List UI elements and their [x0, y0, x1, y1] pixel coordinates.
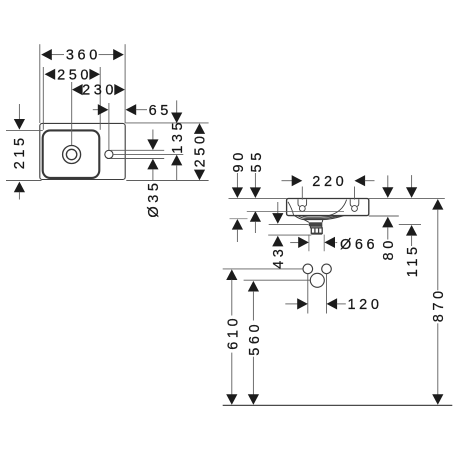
dimension 610 lower stem: [231, 353, 233, 395]
svg-text:220: 220: [312, 174, 347, 190]
dimension 215 upper stem: [18, 104, 20, 119]
svg-text:360: 360: [66, 48, 101, 64]
dimension 360 line: [51, 54, 64, 56]
supply centre line upper (610): [223, 268, 303, 270]
dimension Ø66 left tail: [290, 242, 298, 244]
svg-text:250: 250: [57, 67, 92, 83]
dimension 560 lower arrow: [248, 394, 259, 405]
dimension 115 upper stem: [411, 175, 413, 187]
front view: drain thread box: [311, 228, 322, 233]
dimension 65 right arrow: [126, 104, 137, 115]
dimension 215 lower arrow: [14, 182, 25, 193]
front view: bowl underside middle curve: [298, 216, 340, 219]
dimension Ø35 lower stem: [152, 169, 154, 180]
dimension 120 left tail: [285, 303, 297, 305]
dimension 560 lower stem: [252, 357, 254, 395]
extension line drain bottom (43): [268, 234, 311, 236]
svg-text:135: 135: [170, 119, 186, 154]
dimension 220 line left tail: [282, 180, 293, 182]
dimension 120 right tail: [337, 303, 346, 305]
dimension 55 lower arrow: [250, 211, 261, 222]
extension line bowl lowest point (43/115): [269, 223, 309, 225]
extension line bowl left (250): [42, 67, 44, 130]
waste pipe circle: [310, 273, 324, 287]
dimension 65 left tail: [93, 109, 99, 111]
svg-text:65: 65: [149, 103, 172, 119]
extension line bowl outer bottom left (90): [230, 218, 248, 220]
front view: right keyhole slot: [350, 199, 359, 206]
floor line: [223, 404, 453, 406]
extension line left edge (360): [39, 44, 41, 123]
front view: rim extension line right: [369, 197, 445, 199]
front view: drain flange: [309, 222, 323, 226]
front view: basin slab outline: [287, 199, 369, 216]
dimension 560 upper arrow: [248, 281, 259, 292]
extension line drain centre (230): [71, 82, 73, 145]
dimension 220 left extension line: [301, 187, 303, 200]
front view: trap cup sides: [309, 235, 324, 252]
svg-text:55: 55: [249, 149, 265, 172]
svg-text:560: 560: [247, 321, 263, 356]
svg-text:250: 250: [193, 132, 209, 167]
dimension 610 upper arrow: [226, 269, 237, 280]
dimension 120 right arrow: [327, 298, 338, 309]
dimension 250 top left arrow: [45, 69, 56, 80]
front view: bowl underside outer curve: [295, 216, 344, 220]
top view: tap hole centre line: [113, 153, 183, 155]
extension line right edge (360/230/65): [124, 44, 126, 123]
dimension Ø35 upper stem: [152, 130, 154, 141]
dimension 120 right extension line: [326, 274, 328, 314]
dimension 90 upper arrow: [232, 187, 243, 198]
dimension 55 upper arrow: [250, 187, 261, 198]
dimension 65 left arrow: [98, 104, 109, 115]
dimension 115 lower arrow: [406, 225, 417, 236]
dimension 80 lower arrow: [382, 217, 393, 228]
svg-text:43: 43: [271, 246, 287, 269]
dimension 610 stem: [231, 280, 233, 316]
dimension 250 right lower arrow: [194, 170, 205, 181]
top view: inner bowl outline: [43, 130, 100, 178]
svg-text:870: 870: [431, 287, 447, 322]
top view: tap hole circle on shelf: [105, 150, 113, 158]
front view: bowl funnel to drain: [304, 220, 323, 223]
dimension Ø66 left arrow: [298, 237, 309, 248]
extension line basin front right (Ø35/135/250): [126, 180, 208, 182]
dimension Ø66 right arrow: [324, 237, 335, 248]
extension line bowl lowest right (115): [399, 223, 421, 225]
svg-text:Ø66: Ø66: [340, 237, 378, 253]
dimension 230 left arrow: [72, 84, 83, 95]
front view: rim extension line left: [229, 197, 287, 199]
dimension 610 lower arrow: [226, 394, 237, 405]
front view: bowl interior right contour: [329, 200, 347, 216]
svg-text:115: 115: [405, 243, 421, 277]
extension line bowl inner bottom (55): [247, 211, 344, 213]
dimension 220 right tail: [365, 180, 375, 182]
front view: drain neck: [310, 226, 321, 228]
dimension 220 left arrow: [292, 175, 303, 186]
dimension 90 lower stem: [236, 229, 238, 242]
dimension 870 lower stem: [437, 323, 439, 394]
dimension 360 right arrow: [113, 49, 124, 60]
supply centre line lower (560): [244, 279, 311, 281]
dimension 870 upper arrow: [432, 199, 443, 210]
dimension Ø35 upper arrow: [147, 139, 158, 150]
dimension 115 upper arrow: [406, 187, 417, 198]
front view: drain thread box bottom: [311, 233, 322, 235]
dimension 55 upper stem: [254, 173, 256, 188]
dimension 215 lower stem: [18, 192, 20, 200]
svg-text:90: 90: [231, 149, 247, 172]
dimension Ø66 label: [335, 242, 337, 244]
svg-text:610: 610: [225, 315, 241, 350]
dimension Ø35 lower arrow: [147, 159, 158, 170]
dimension 135 lower arrow: [171, 155, 182, 166]
dimension 120 left extension line: [307, 274, 309, 314]
dimension 43 lower arrow: [272, 236, 283, 247]
svg-text:230: 230: [82, 83, 117, 99]
dimension 80 upper stem: [387, 175, 389, 187]
top view: drain hole inner circle: [66, 149, 76, 159]
dimension 360 left arrow: [41, 49, 52, 60]
dimension 80 lower stem: [387, 227, 389, 240]
front view: left keyhole slot: [298, 199, 307, 206]
dimension 560 stem: [252, 291, 254, 320]
extension line basin back right (135/250): [125, 122, 208, 124]
dimension 43 upper arrow: [272, 213, 283, 224]
extension line basin underside right (80): [369, 215, 399, 217]
dimension 43 upper stem: [277, 202, 279, 214]
dimension 870 upper stem: [437, 209, 439, 290]
dimension 115 lower stem: [411, 235, 413, 246]
front view: bowl underside inner curve: [301, 216, 337, 218]
dimension 220 right arrow: [355, 175, 366, 186]
top view: tap hole bottom tangent leader: [111, 158, 165, 160]
top view: tap hole top tangent leader: [111, 149, 165, 151]
supply pipe right circle: [322, 264, 332, 274]
svg-text:80: 80: [381, 237, 397, 260]
dimension 230 right arrow: [114, 84, 125, 95]
dimension 250 top right arrow: [89, 69, 100, 80]
dimension 90 upper stem: [236, 173, 238, 188]
svg-text:Ø35: Ø35: [146, 179, 162, 217]
extension line basin front left (215): [6, 180, 42, 182]
top view: tap hole vertical centre line: [108, 103, 110, 150]
dimension 250 right upper arrow: [194, 123, 205, 134]
dimension 135 upper stem: [176, 100, 178, 113]
extension line bowl right (250): [99, 67, 101, 130]
dimension 220 right extension line: [354, 187, 356, 200]
svg-text:215: 215: [12, 134, 28, 169]
svg-text:120: 120: [348, 297, 383, 313]
extension line bowl back left (215): [6, 130, 43, 132]
supply pipe left circle: [303, 264, 313, 274]
dimension 135 upper arrow: [171, 113, 182, 124]
front view: bowl interior left contour: [288, 202, 294, 215]
top view: drain hole outer circle: [63, 146, 81, 164]
dimension 120 left arrow: [297, 298, 308, 309]
dimension 65 right tail: [136, 109, 147, 111]
dimension 135 lower stem: [176, 165, 178, 180]
dimension 55 lower stem: [254, 221, 256, 233]
dimension 870 lower arrow: [432, 394, 443, 405]
dimension 80 upper arrow: [382, 187, 393, 198]
top view: outer basin outline 360x250: [40, 123, 125, 179]
dimension 215 upper arrow: [14, 119, 25, 130]
dimension 90 lower arrow: [232, 219, 243, 230]
